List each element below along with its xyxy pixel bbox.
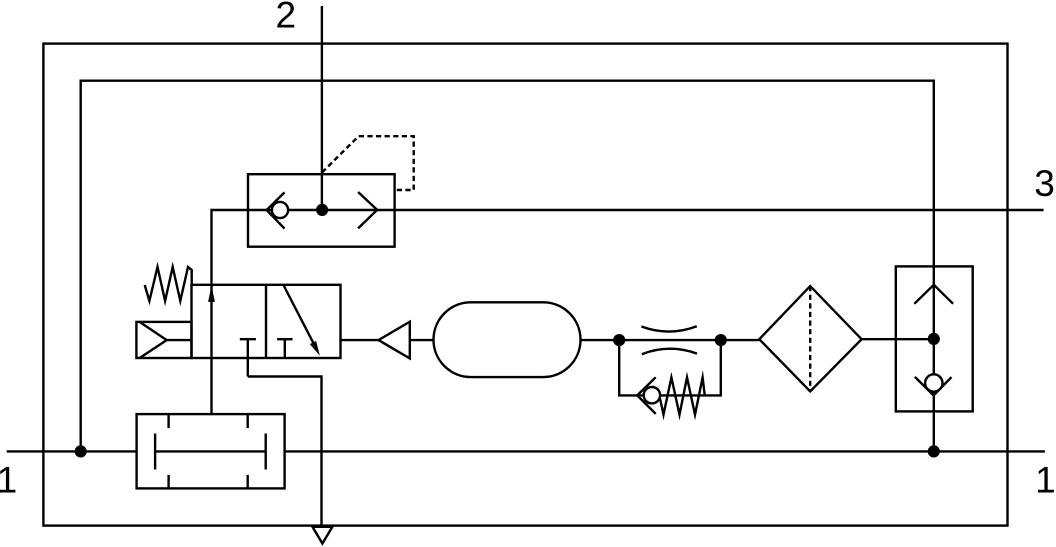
booster cylinder bottom ticks: [167, 475, 169, 489]
flow restrictor lower arc: [642, 349, 697, 355]
QEV outlet arrow: [358, 192, 377, 228]
check valve unit seat: [915, 377, 952, 396]
node A: [613, 334, 625, 346]
3/2 valve exhaust path diagonal: [284, 286, 314, 344]
QEV check valve seat: [267, 192, 285, 228]
air reservoir: [434, 302, 581, 377]
filter element dashed: [809, 286, 811, 391]
wire valve outlet to nozzle: [341, 339, 379, 341]
node D: [928, 445, 940, 457]
node C: [928, 333, 940, 345]
wire through right check valve to port 1 line: [933, 392, 935, 452]
wire filter to check valve unit: [862, 338, 934, 340]
wire nozzle to reservoir: [410, 339, 433, 341]
bypass check valve spring: [660, 377, 705, 414]
QEV check valve ball: [272, 202, 288, 218]
3/2 valve pilot actuator box: [136, 322, 191, 358]
svg-text:1: 1: [1035, 460, 1056, 501]
wire reservoir to restrictor: [580, 339, 759, 341]
check valve unit body: [896, 266, 973, 411]
port 2 line: [321, 6, 323, 210]
3/2 valve flow arrow head: [208, 286, 215, 302]
svg-text:1: 1: [0, 460, 17, 501]
flow restrictor upper arc: [641, 326, 696, 331]
nozzle triangle: [379, 322, 410, 359]
3/2 valve position divider: [265, 285, 267, 358]
exhaust wire from valve to silencer: [248, 377, 322, 526]
booster cylinder right piston: [265, 434, 267, 470]
3/2 valve V1 body: [192, 285, 341, 358]
svg-text:3: 3: [1034, 163, 1055, 204]
3/2 valve pilot triangle: [140, 322, 167, 358]
filter F1 body: [759, 286, 861, 391]
svg-text:2: 2: [276, 0, 297, 36]
node B: [715, 334, 727, 346]
3/2 valve left blocked port T: [240, 338, 256, 340]
QEV junction node: [316, 204, 328, 216]
QEV pilot dashed line: [322, 136, 414, 190]
port 3 line: [212, 209, 1044, 211]
bypass check valve seat: [637, 377, 656, 414]
quick exhaust valve QEV body: [248, 174, 395, 247]
booster cylinder top ticks: [167, 414, 169, 428]
bypass wire with check valve: [619, 340, 721, 395]
booster cylinder left piston: [154, 434, 156, 470]
port 1 line (left segment): [7, 450, 137, 452]
3/2 valve right blocked port T: [277, 338, 292, 340]
wire QEV outlet to valve inlet: [210, 209, 212, 414]
bypass check valve ball: [644, 387, 660, 403]
port 1 line (right segment): [285, 450, 1045, 452]
booster cylinder body: [137, 414, 285, 488]
check valve unit ball: [925, 374, 942, 391]
wire pilot to valve: [167, 339, 192, 341]
check valve unit flow arrow: [914, 285, 953, 304]
pilot feedback loop wire: [81, 81, 934, 452]
booster cylinder rod: [155, 450, 266, 452]
3/2 valve return spring: [145, 267, 192, 301]
exhaust outlet triangle: [313, 527, 333, 544]
node E: [75, 445, 87, 457]
